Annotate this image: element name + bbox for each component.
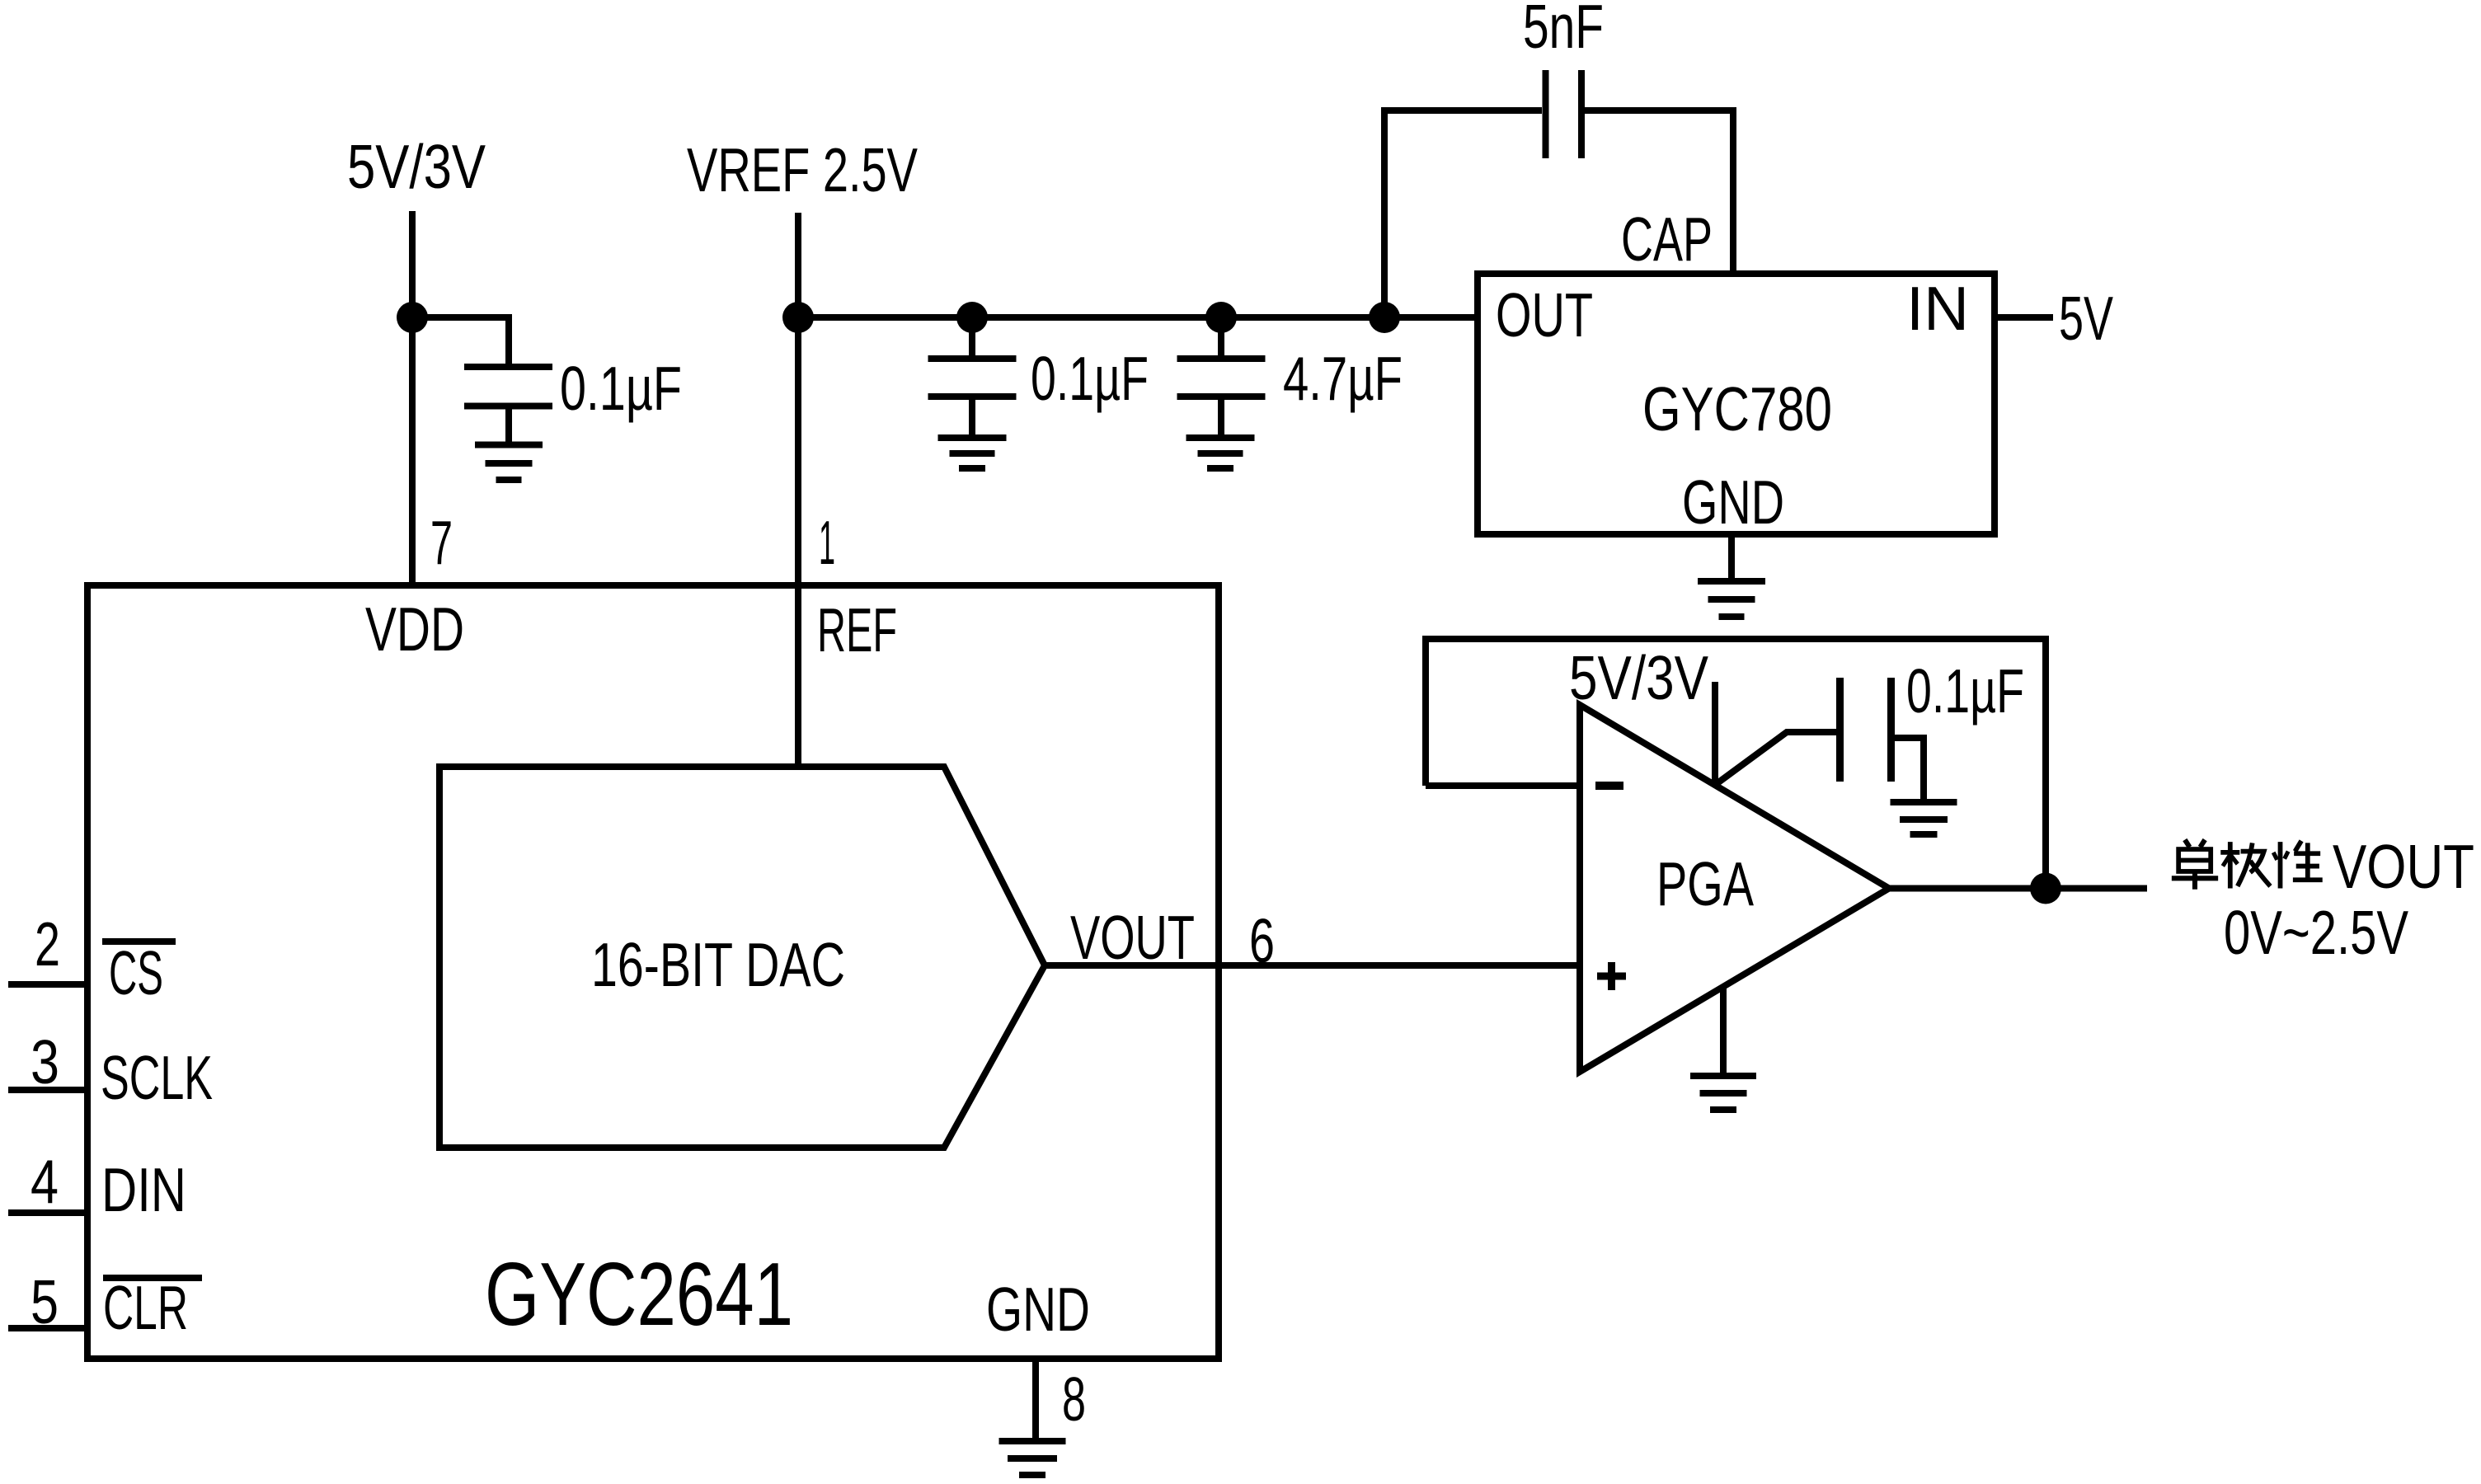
- svg-text:GYC2641: GYC2641: [485, 1244, 793, 1345]
- svg-text:0.1µF: 0.1µF: [560, 354, 682, 423]
- svg-text:PGA: PGA: [1656, 849, 1754, 918]
- svg-text:2: 2: [35, 909, 60, 979]
- svg-text:DIN: DIN: [101, 1155, 186, 1224]
- svg-text:16-BIT DAC: 16-BIT DAC: [591, 930, 845, 999]
- svg-text:5V: 5V: [2059, 284, 2113, 353]
- svg-text:0.1µF: 0.1µF: [1031, 344, 1149, 413]
- svg-text:VDD: VDD: [365, 594, 464, 664]
- svg-text:7: 7: [430, 508, 453, 577]
- svg-text:5V/3V: 5V/3V: [1569, 643, 1708, 712]
- svg-text:0.1µF: 0.1µF: [1906, 656, 2024, 726]
- svg-text:0V~2.5V: 0V~2.5V: [2224, 898, 2408, 967]
- svg-text:OUT: OUT: [1496, 280, 1593, 350]
- svg-text:4.7µF: 4.7µF: [1283, 344, 1403, 413]
- svg-text:VOUT: VOUT: [1070, 903, 1195, 972]
- svg-text:CLR: CLR: [103, 1273, 188, 1342]
- svg-text:5nF: 5nF: [1523, 0, 1604, 61]
- svg-text:CS: CS: [109, 938, 163, 1007]
- svg-text:4: 4: [31, 1147, 59, 1216]
- svg-text:CAP: CAP: [1621, 204, 1713, 274]
- svg-text:SCLK: SCLK: [101, 1043, 213, 1112]
- svg-text:GND: GND: [1682, 467, 1784, 537]
- svg-text:8: 8: [1062, 1364, 1086, 1434]
- svg-text:6: 6: [1249, 906, 1275, 975]
- svg-text:GND: GND: [986, 1275, 1090, 1344]
- svg-text:REF: REF: [817, 595, 897, 665]
- svg-text:GYC780: GYC780: [1642, 374, 1832, 444]
- svg-text:3: 3: [31, 1027, 59, 1097]
- svg-text:VOUT: VOUT: [2333, 832, 2474, 901]
- svg-text:5: 5: [31, 1267, 59, 1336]
- svg-text:1: 1: [819, 508, 835, 577]
- svg-text:VREF 2.5V: VREF 2.5V: [687, 135, 918, 204]
- svg-text:IN: IN: [1906, 274, 1969, 343]
- svg-text:5V/3V: 5V/3V: [347, 132, 486, 201]
